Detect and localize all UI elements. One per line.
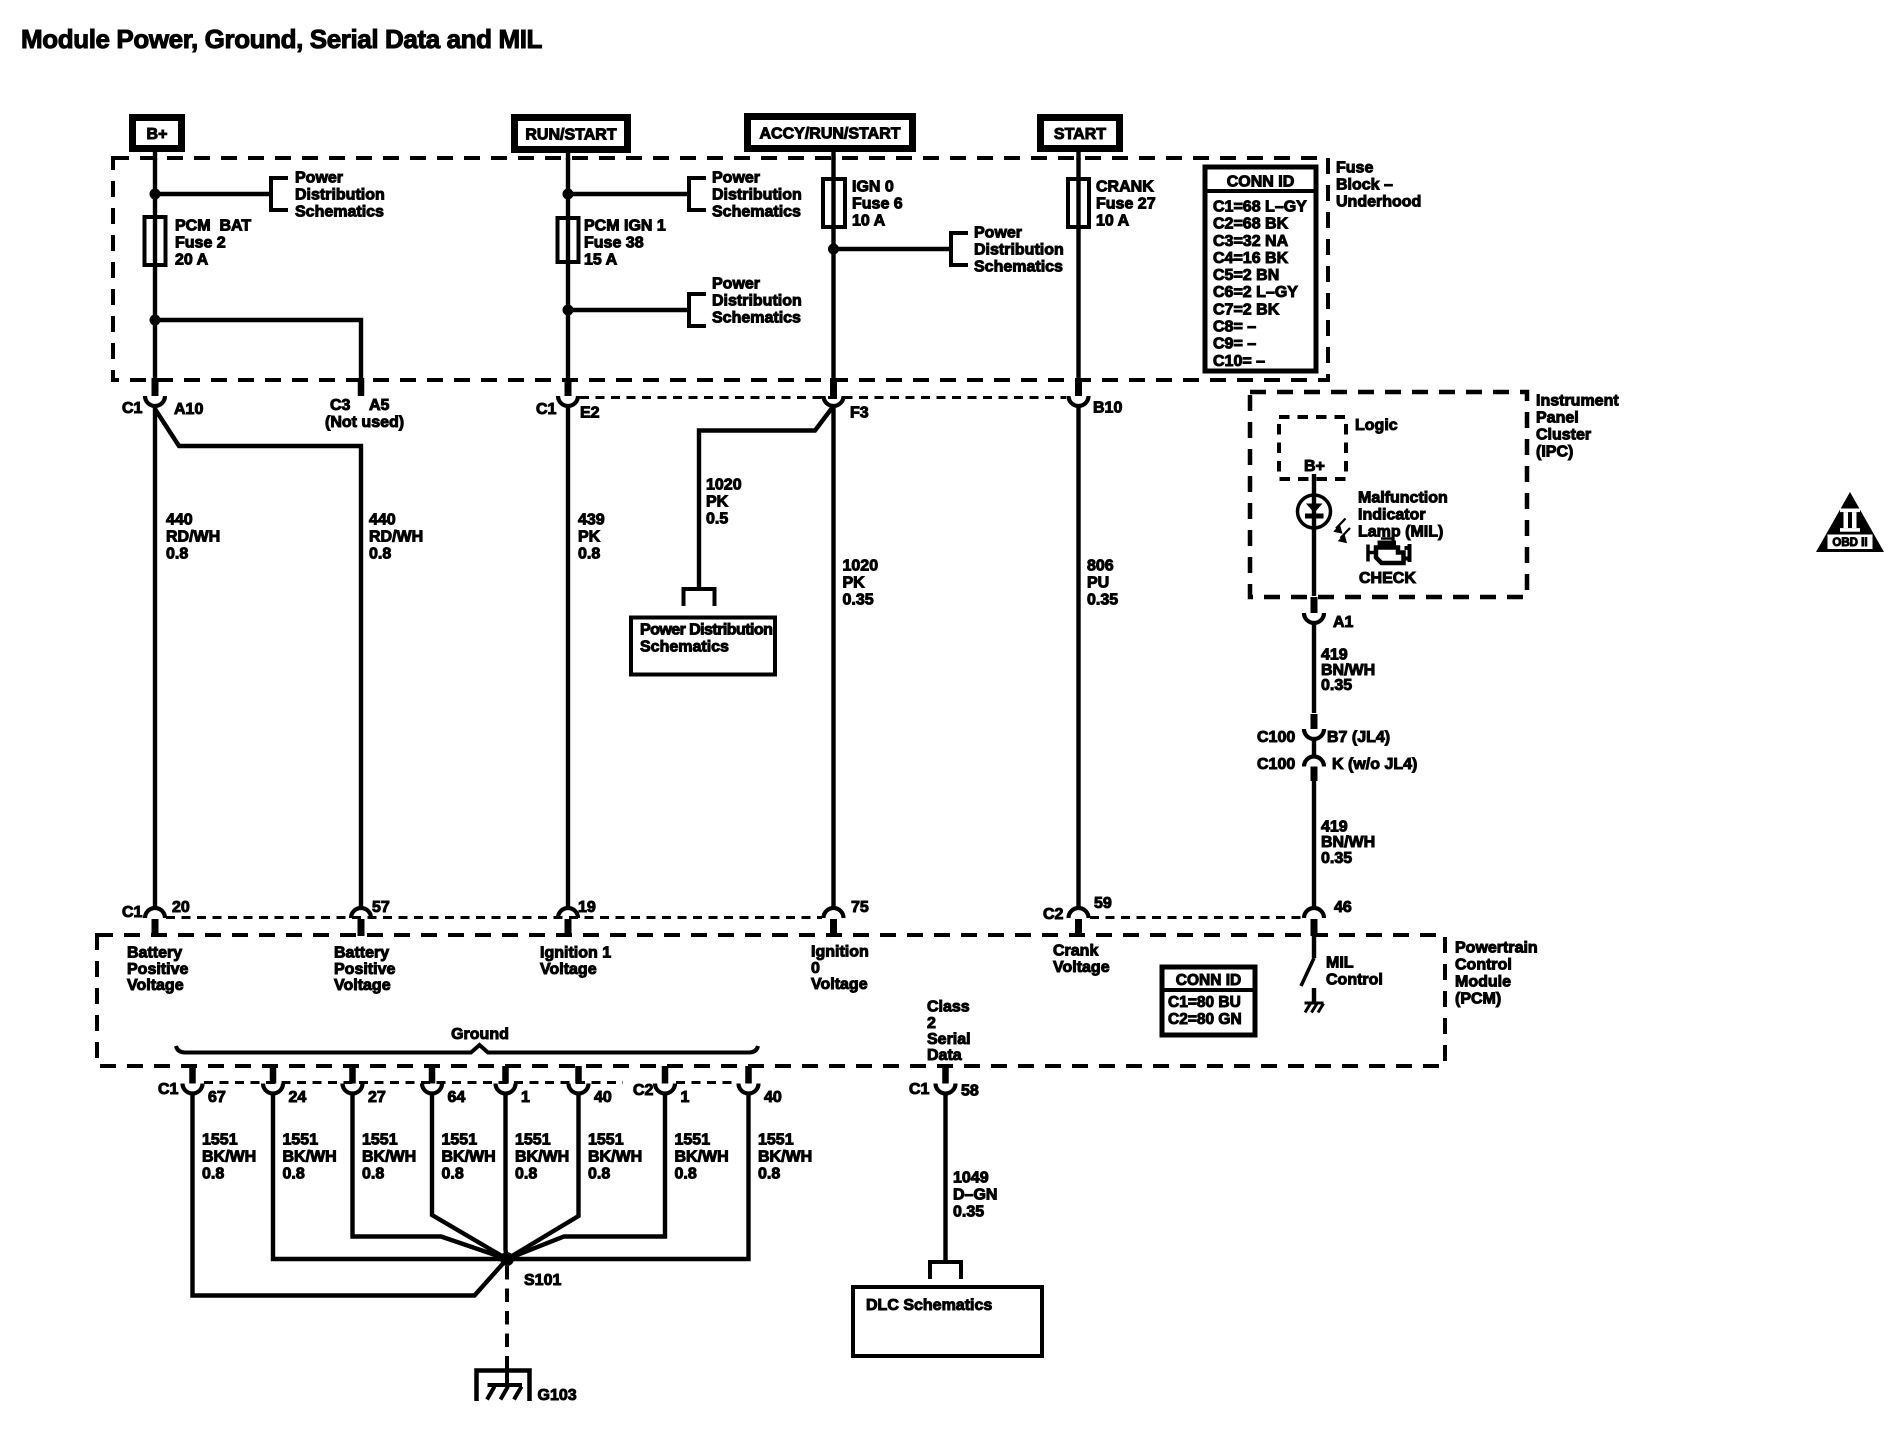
svg-text:440: 440 [369, 512, 396, 529]
svg-text:0.8: 0.8 [442, 1166, 464, 1183]
svg-text:64: 64 [448, 1089, 466, 1106]
svg-text:Fuse 2: Fuse 2 [175, 235, 226, 252]
svg-text:10 A: 10 A [852, 213, 886, 230]
svg-text:BK/WH: BK/WH [442, 1149, 496, 1166]
label 1551 BK/WH 0.8 at x=352.5 [362, 1132, 416, 1183]
label ignition 1 voltage [540, 945, 611, 978]
dashed connector line ground row right [676, 1081, 737, 1084]
svg-text:0.8: 0.8 [202, 1166, 224, 1183]
fuse block underhood enclosure [113, 158, 1328, 380]
label power distribution schematics 3 [712, 276, 802, 327]
svg-text:C2: C2 [633, 1082, 654, 1099]
svg-text:C2=68 BK: C2=68 BK [1213, 216, 1289, 233]
svg-text:C3=32 NA: C3=32 NA [1213, 233, 1289, 250]
svg-text:RD/WH: RD/WH [369, 529, 423, 546]
label 1551 BK/WH 0.8 at x=192.5 [202, 1132, 256, 1183]
svg-text:0.8: 0.8 [362, 1166, 384, 1183]
svg-text:419: 419 [1321, 819, 1348, 836]
dashed connector line row1 E2-F3-B10 [580, 396, 1066, 399]
powertrain control module enclosure [97, 935, 1445, 1066]
label Malfunction Indicator Lamp (MIL) [1358, 490, 1448, 541]
wire 440 RD/WH circuit A10 to pin20 [153, 408, 157, 908]
svg-text:C8= –: C8= – [1213, 319, 1256, 336]
svg-text:CONN ID: CONN ID [1227, 174, 1295, 191]
off-page pointer power distribution 4 [951, 233, 968, 265]
svg-text:59: 59 [1094, 895, 1112, 912]
power terminal ACCY/RUN/START [748, 117, 913, 149]
svg-text:0.8: 0.8 [283, 1166, 305, 1183]
svg-text:806: 806 [1087, 558, 1114, 575]
svg-text:Battery: Battery [334, 945, 389, 962]
svg-text:(IPC): (IPC) [1536, 444, 1573, 461]
connector C100 B7 (JL4) [1257, 714, 1390, 746]
wire 419 BN/WH lower [1312, 780, 1316, 908]
label 1020 PK 0.5 [706, 477, 742, 528]
label 806 PU 0.35 [1087, 558, 1118, 609]
connector C1/F3 row1 pin F3 [824, 378, 869, 422]
svg-text:0.35: 0.35 [1321, 677, 1352, 694]
svg-text:40: 40 [594, 1089, 612, 1106]
svg-text:C1=80 BU: C1=80 BU [1168, 994, 1241, 1011]
wire ground pin40 C2 to S101 [507, 1093, 749, 1259]
svg-text:START: START [1054, 126, 1106, 143]
svg-text:1: 1 [681, 1089, 690, 1106]
svg-text:0.8: 0.8 [578, 546, 600, 563]
svg-text:BK/WH: BK/WH [675, 1149, 729, 1166]
wire START to fuse block [1076, 150, 1080, 160]
svg-text:Fuse: Fuse [1336, 160, 1373, 177]
wire upper tap to power distribution 2 [568, 192, 689, 196]
svg-text:BK/WH: BK/WH [202, 1149, 256, 1166]
instrument panel cluster enclosure [1250, 392, 1527, 597]
connector PCM pin 57 [351, 899, 390, 936]
connector C1 pin 58 serial data [909, 1066, 979, 1100]
svg-text:1020: 1020 [843, 558, 879, 575]
off-page pointer power distribution 1 [271, 178, 288, 210]
svg-text:A10: A10 [174, 401, 203, 418]
svg-text:Crank: Crank [1053, 943, 1098, 960]
svg-text:Indicator: Indicator [1358, 507, 1426, 524]
connector PCM ground pin 64 (C1) [422, 1066, 465, 1106]
PCM internal ground [1305, 988, 1324, 1013]
connector C1/E2 row1 pin E2 [536, 378, 600, 422]
svg-text:1551: 1551 [442, 1132, 478, 1149]
label PCM IGN 1 Fuse 38 15 A [584, 218, 666, 269]
svg-text:F3: F3 [850, 405, 869, 422]
svg-text:439: 439 [578, 512, 605, 529]
wire B+ vertical in fuse block [153, 158, 157, 380]
svg-text:0.8: 0.8 [369, 546, 391, 563]
power terminal RUN/START [515, 118, 628, 150]
wire ground pin27 to S101 [353, 1093, 508, 1259]
label battery positive voltage pin57 [334, 945, 395, 994]
connector PCM pin 46 [1304, 899, 1352, 936]
MIL control switch [1301, 936, 1314, 986]
svg-text:Data: Data [927, 1047, 962, 1064]
svg-text:20 A: 20 A [175, 252, 209, 269]
connector C100 K (w/o JL4) [1257, 739, 1417, 781]
label battery positive voltage pin20 [127, 945, 188, 994]
connector C1/A10 row1 pin A10 [122, 378, 203, 418]
title [21, 24, 543, 54]
wire ground pin67 to S101 [193, 1093, 508, 1296]
svg-text:0.35: 0.35 [843, 592, 874, 609]
svg-text:B7 (JL4): B7 (JL4) [1327, 729, 1390, 746]
svg-text:Cluster: Cluster [1536, 427, 1591, 444]
junction RUN/START lower tap [563, 305, 574, 316]
connector PCM ground pin 40 (C2) [739, 1066, 782, 1106]
svg-text:Lamp (MIL): Lamp (MIL) [1358, 524, 1443, 541]
label C1 ground row [158, 1081, 179, 1098]
svg-text:Fuse 27: Fuse 27 [1096, 196, 1156, 213]
svg-text:C1=68 L–GY: C1=68 L–GY [1213, 199, 1307, 216]
svg-text:Panel: Panel [1536, 410, 1579, 427]
label MIL Control [1326, 955, 1383, 989]
label 1551 BK/WH 0.8 at x=578.5 [588, 1132, 642, 1183]
power terminal B+ [133, 118, 182, 149]
label power distribution schematics 4 [974, 225, 1064, 276]
label 1551 BK/WH 0.8 at x=665 [675, 1132, 729, 1183]
svg-text:BK/WH: BK/WH [588, 1149, 642, 1166]
svg-text:CONN ID: CONN ID [1176, 972, 1241, 989]
wire 439 PK circuit E2 to pin19 [566, 408, 570, 908]
svg-text:BK/WH: BK/WH [362, 1149, 416, 1166]
svg-text:Power: Power [712, 170, 760, 187]
svg-text:C100: C100 [1257, 729, 1295, 746]
svg-text:C100: C100 [1257, 756, 1295, 773]
table CONN ID fuse block [1205, 167, 1316, 371]
box DLC schematics [853, 1287, 1042, 1356]
wire tap to power distribution 4 [834, 247, 952, 251]
destination symbol above power distribution box [684, 589, 715, 606]
fuse PCM IGN 1 Fuse 38 [558, 218, 579, 262]
ground G103 symbol [477, 1363, 577, 1404]
svg-text:Positive: Positive [334, 961, 395, 978]
svg-text:58: 58 [961, 1083, 979, 1100]
wire ground pin40 C1 to S101 [507, 1093, 579, 1259]
wire ground pin64 to S101 [432, 1093, 507, 1259]
destination symbol above DLC box [930, 1262, 961, 1279]
svg-text:Distribution: Distribution [295, 187, 385, 204]
svg-text:1020: 1020 [706, 477, 742, 494]
svg-text:40: 40 [764, 1089, 782, 1106]
wire ground pin24 to S101 [273, 1093, 507, 1259]
svg-text:C1: C1 [536, 401, 557, 418]
fuse CRANK Fuse 27 [1068, 179, 1089, 227]
svg-text:C1: C1 [122, 400, 143, 417]
malfunction indicator lamp LED [1298, 495, 1331, 528]
svg-text:BK/WH: BK/WH [283, 1149, 337, 1166]
fuse IGN 0 Fuse 6 [823, 179, 845, 227]
wire lower tap to power distribution 3 [568, 308, 689, 312]
wire 806 PU circuit B10 to pin59 [1076, 408, 1080, 908]
svg-text:Schematics: Schematics [712, 310, 801, 327]
label 439 PK 0.8 [578, 512, 605, 563]
svg-text:IGN 0: IGN 0 [852, 179, 894, 196]
label B+ node [1304, 458, 1325, 475]
label 1551 BK/WH 0.8 at x=273 [283, 1132, 337, 1183]
svg-text:Battery: Battery [127, 945, 182, 962]
svg-text:C2=80 GN: C2=80 GN [1168, 1011, 1242, 1028]
svg-text:1551: 1551 [588, 1132, 624, 1149]
wire 1020 PK 0.5 branch to power distribution [699, 406, 834, 589]
LED light arrows [1333, 519, 1350, 544]
wire ground pin1 C1 to S101 [506, 1093, 508, 1259]
label 1020 PK 0.35 [843, 558, 879, 609]
svg-text:1551: 1551 [362, 1132, 398, 1149]
label 440 RD/WH 0.8 (left) [166, 512, 220, 563]
svg-text:RUN/START: RUN/START [525, 126, 616, 143]
label power distribution schematics 2 [712, 170, 802, 221]
svg-text:Schematics: Schematics [974, 259, 1063, 276]
wire ACCY/RUN/START to fuse block [831, 150, 835, 160]
svg-text:C6=2 L–GY: C6=2 L–GY [1213, 284, 1298, 301]
label CRANK Fuse 27 10 A [1096, 179, 1156, 230]
svg-text:Power: Power [712, 276, 760, 293]
svg-text:ACCY/RUN/START: ACCY/RUN/START [759, 125, 900, 142]
svg-text:0.8: 0.8 [166, 546, 188, 563]
label 1551 BK/WH 0.8 at x=432 [442, 1132, 496, 1183]
svg-text:A1: A1 [1333, 614, 1354, 631]
svg-text:Schematics: Schematics [295, 204, 384, 221]
dashed wire S101 to G103 [505, 1266, 509, 1372]
svg-text:BN/WH: BN/WH [1321, 834, 1375, 851]
svg-text:0.8: 0.8 [758, 1166, 780, 1183]
label crank voltage [1053, 943, 1110, 976]
svg-text:PCM BAT: PCM BAT [175, 218, 251, 235]
wire to C3 A5 stub [155, 320, 361, 378]
svg-text:Voltage: Voltage [811, 976, 868, 993]
label 1551 BK/WH 0.8 at x=748.5 [758, 1132, 812, 1183]
svg-text:C1: C1 [909, 1081, 930, 1098]
svg-text:57: 57 [372, 899, 390, 916]
ground brace [176, 1026, 758, 1053]
wire B+ to MIL lamp [1312, 474, 1316, 596]
label Instrument Panel Cluster (IPC) [1536, 393, 1619, 461]
connector C3 A5 not used stub [325, 378, 404, 431]
svg-text:C10= –: C10= – [1213, 353, 1265, 370]
svg-text:1551: 1551 [758, 1132, 794, 1149]
connector PCM pin 19 [558, 899, 596, 936]
svg-text:0.8: 0.8 [588, 1166, 610, 1183]
check engine icon [1368, 539, 1410, 564]
connector PCM pin 20 [122, 899, 190, 936]
svg-text:C1: C1 [122, 904, 143, 921]
junction IGN 0 tap [828, 244, 839, 255]
svg-text:Voltage: Voltage [334, 977, 391, 994]
label class 2 serial data [927, 999, 971, 1065]
connector PCM pin 59 [1043, 895, 1112, 936]
svg-text:1551: 1551 [283, 1132, 319, 1149]
label Logic [1355, 417, 1398, 434]
connector A1 on IPC [1304, 597, 1354, 631]
svg-text:Distribution: Distribution [712, 293, 802, 310]
svg-text:Voltage: Voltage [127, 977, 184, 994]
svg-text:G103: G103 [538, 1387, 577, 1404]
label PCM BAT Fuse 2 20 A [175, 218, 251, 269]
svg-text:Logic: Logic [1355, 417, 1398, 434]
svg-text:24: 24 [289, 1089, 307, 1106]
connector PCM ground pin 24 (C1) [263, 1066, 306, 1106]
connector C1/B10 row1 pin B10 [1069, 378, 1123, 417]
svg-text:1: 1 [521, 1089, 530, 1106]
wire 419 BN/WH upper [1312, 621, 1316, 713]
wire ACCY/RUN/START vertical in fuse block [831, 158, 835, 380]
off-page pointer power distribution 3 [689, 294, 706, 326]
label ignition 0 voltage [811, 944, 869, 993]
svg-text:Voltage: Voltage [540, 961, 597, 978]
svg-text:B+: B+ [1304, 458, 1325, 475]
wire START vertical in fuse block [1076, 158, 1080, 380]
label C2 ground row [633, 1082, 654, 1099]
svg-text:0.8: 0.8 [515, 1166, 537, 1183]
connector PCM ground pin 1 (C2) [655, 1066, 690, 1106]
table CONN ID PCM [1162, 967, 1255, 1035]
label IGN 0 Fuse 6 10 A [852, 179, 903, 230]
splice S101 [500, 1252, 561, 1289]
svg-text:67: 67 [208, 1089, 226, 1106]
svg-text:1551: 1551 [675, 1132, 711, 1149]
label 440 RD/WH 0.8 (second) [369, 512, 423, 563]
svg-text:0.8: 0.8 [675, 1166, 697, 1183]
fuse PCM BAT Fuse 2 [145, 217, 166, 265]
svg-text:MIL: MIL [1326, 955, 1354, 972]
wire 440 RD/WH branch A10 to pin57 [155, 409, 361, 908]
box power distribution schematics [631, 618, 775, 675]
svg-text:Serial: Serial [927, 1031, 971, 1048]
label 419 BN/WH 0.35 upper [1321, 647, 1375, 695]
connector PCM ground pin 27 (C1) [343, 1066, 386, 1106]
dashed connector line row2 right [1090, 916, 1302, 919]
svg-text:1551: 1551 [515, 1132, 551, 1149]
svg-text:Power: Power [974, 225, 1022, 242]
label 419 BN/WH 0.35 lower [1321, 819, 1375, 867]
svg-text:Instrument: Instrument [1536, 393, 1619, 410]
svg-text:Ground: Ground [451, 1026, 509, 1043]
svg-text:C4=16 BK: C4=16 BK [1213, 250, 1289, 267]
wire B+ to fuse block [153, 150, 157, 160]
svg-text:Class: Class [927, 999, 970, 1016]
wire tap to power distribution (left) [155, 192, 271, 196]
svg-text:Fuse 38: Fuse 38 [584, 235, 644, 252]
svg-text:Voltage: Voltage [1053, 959, 1110, 976]
svg-text:15 A: 15 A [584, 252, 618, 269]
junction on B+ wire to C3 A5 [150, 315, 161, 326]
svg-text:19: 19 [578, 899, 596, 916]
svg-text:PU: PU [1087, 575, 1109, 592]
svg-text:C3: C3 [330, 397, 351, 414]
svg-text:PK: PK [843, 575, 866, 592]
wire 1020 PK circuit F3 to pin75 [831, 408, 835, 908]
svg-text:PK: PK [578, 529, 601, 546]
svg-text:Power Distribution: Power Distribution [640, 622, 772, 639]
svg-text:75: 75 [851, 899, 869, 916]
svg-text:46: 46 [1334, 899, 1352, 916]
svg-text:K (w/o JL4): K (w/o JL4) [1332, 756, 1417, 773]
svg-text:Underhood: Underhood [1336, 194, 1421, 211]
svg-text:Schematics: Schematics [640, 639, 729, 656]
svg-text:1551: 1551 [202, 1132, 238, 1149]
svg-text:Ignition: Ignition [811, 944, 869, 961]
wire 1049 D-GN serial data [943, 1093, 947, 1262]
svg-text:(Not used): (Not used) [325, 414, 404, 431]
connector PCM ground pin 67 (C1) [183, 1066, 226, 1106]
power terminal START [1041, 118, 1120, 149]
svg-text:0.35: 0.35 [1087, 592, 1118, 609]
svg-text:Distribution: Distribution [974, 242, 1064, 259]
svg-text:Module Power, Ground, Serial D: Module Power, Ground, Serial Data and MI… [21, 24, 543, 54]
svg-text:B10: B10 [1093, 400, 1122, 417]
off-page pointer power distribution 2 [689, 178, 706, 210]
svg-text:B+: B+ [147, 126, 168, 143]
svg-text:DLC Schematics: DLC Schematics [866, 1297, 992, 1314]
wire RUN/START to fuse block [566, 151, 570, 160]
svg-text:Block –: Block – [1336, 177, 1393, 194]
svg-text:Power: Power [295, 170, 343, 187]
svg-text:E2: E2 [580, 405, 600, 422]
label power distribution schematics 1 [295, 170, 385, 221]
label 1551 BK/WH 0.8 at x=505.5 [515, 1132, 569, 1183]
svg-text:PK: PK [706, 494, 729, 511]
svg-text:PCM IGN 1: PCM IGN 1 [584, 218, 666, 235]
dashed connector line ground row left [204, 1081, 623, 1084]
label Powertrain Control Module (PCM) [1455, 940, 1538, 1008]
svg-text:Control: Control [1455, 957, 1512, 974]
svg-text:Schematics: Schematics [712, 204, 801, 221]
svg-text:RD/WH: RD/WH [166, 529, 220, 546]
svg-text:0.35: 0.35 [1321, 850, 1352, 867]
dashed connector line row2 left [166, 916, 822, 919]
svg-text:C7=2 BK: C7=2 BK [1213, 301, 1280, 318]
svg-text:10 A: 10 A [1096, 213, 1130, 230]
svg-text:Positive: Positive [127, 961, 188, 978]
svg-text:20: 20 [172, 899, 190, 916]
svg-text:C2: C2 [1043, 906, 1064, 923]
svg-text:S101: S101 [524, 1272, 561, 1289]
connector PCM ground pin 1 (C1) [496, 1066, 531, 1106]
svg-text:C5=2 BN: C5=2 BN [1213, 267, 1279, 284]
svg-text:C9= –: C9= – [1213, 336, 1256, 353]
svg-text:C1: C1 [158, 1081, 179, 1098]
label 1049 D-GN 0.35 [953, 1170, 997, 1221]
connector PCM ground pin 40 (C1) [569, 1066, 612, 1106]
label Fuse Block Underhood [1336, 160, 1421, 211]
svg-text:CHECK: CHECK [1359, 570, 1416, 587]
wire ground pin1 C2 to S101 [507, 1093, 665, 1259]
svg-text:Module: Module [1455, 974, 1511, 991]
svg-text:Ignition 1: Ignition 1 [540, 945, 611, 962]
junction RUN/START upper tap [563, 189, 574, 200]
svg-text:2: 2 [927, 1015, 936, 1032]
svg-text:27: 27 [368, 1089, 386, 1106]
svg-text:Powertrain: Powertrain [1455, 940, 1538, 957]
svg-text:0.5: 0.5 [706, 511, 728, 528]
svg-text:OBD II: OBD II [1832, 537, 1867, 549]
svg-text:Distribution: Distribution [712, 187, 802, 204]
svg-text:Malfunction: Malfunction [1358, 490, 1448, 507]
svg-text:440: 440 [166, 512, 193, 529]
svg-text:BK/WH: BK/WH [758, 1149, 812, 1166]
junction on B+ wire at power distribution tap [150, 189, 161, 200]
connector PCM pin 75 [824, 899, 869, 936]
logic block dashed box [1279, 417, 1346, 479]
svg-text:CRANK: CRANK [1096, 179, 1154, 196]
svg-text:Control: Control [1326, 972, 1383, 989]
svg-text:D–GN: D–GN [953, 1187, 997, 1204]
label CHECK [1359, 570, 1416, 587]
svg-text:1049: 1049 [953, 1170, 989, 1187]
svg-text:Fuse 6: Fuse 6 [852, 196, 903, 213]
